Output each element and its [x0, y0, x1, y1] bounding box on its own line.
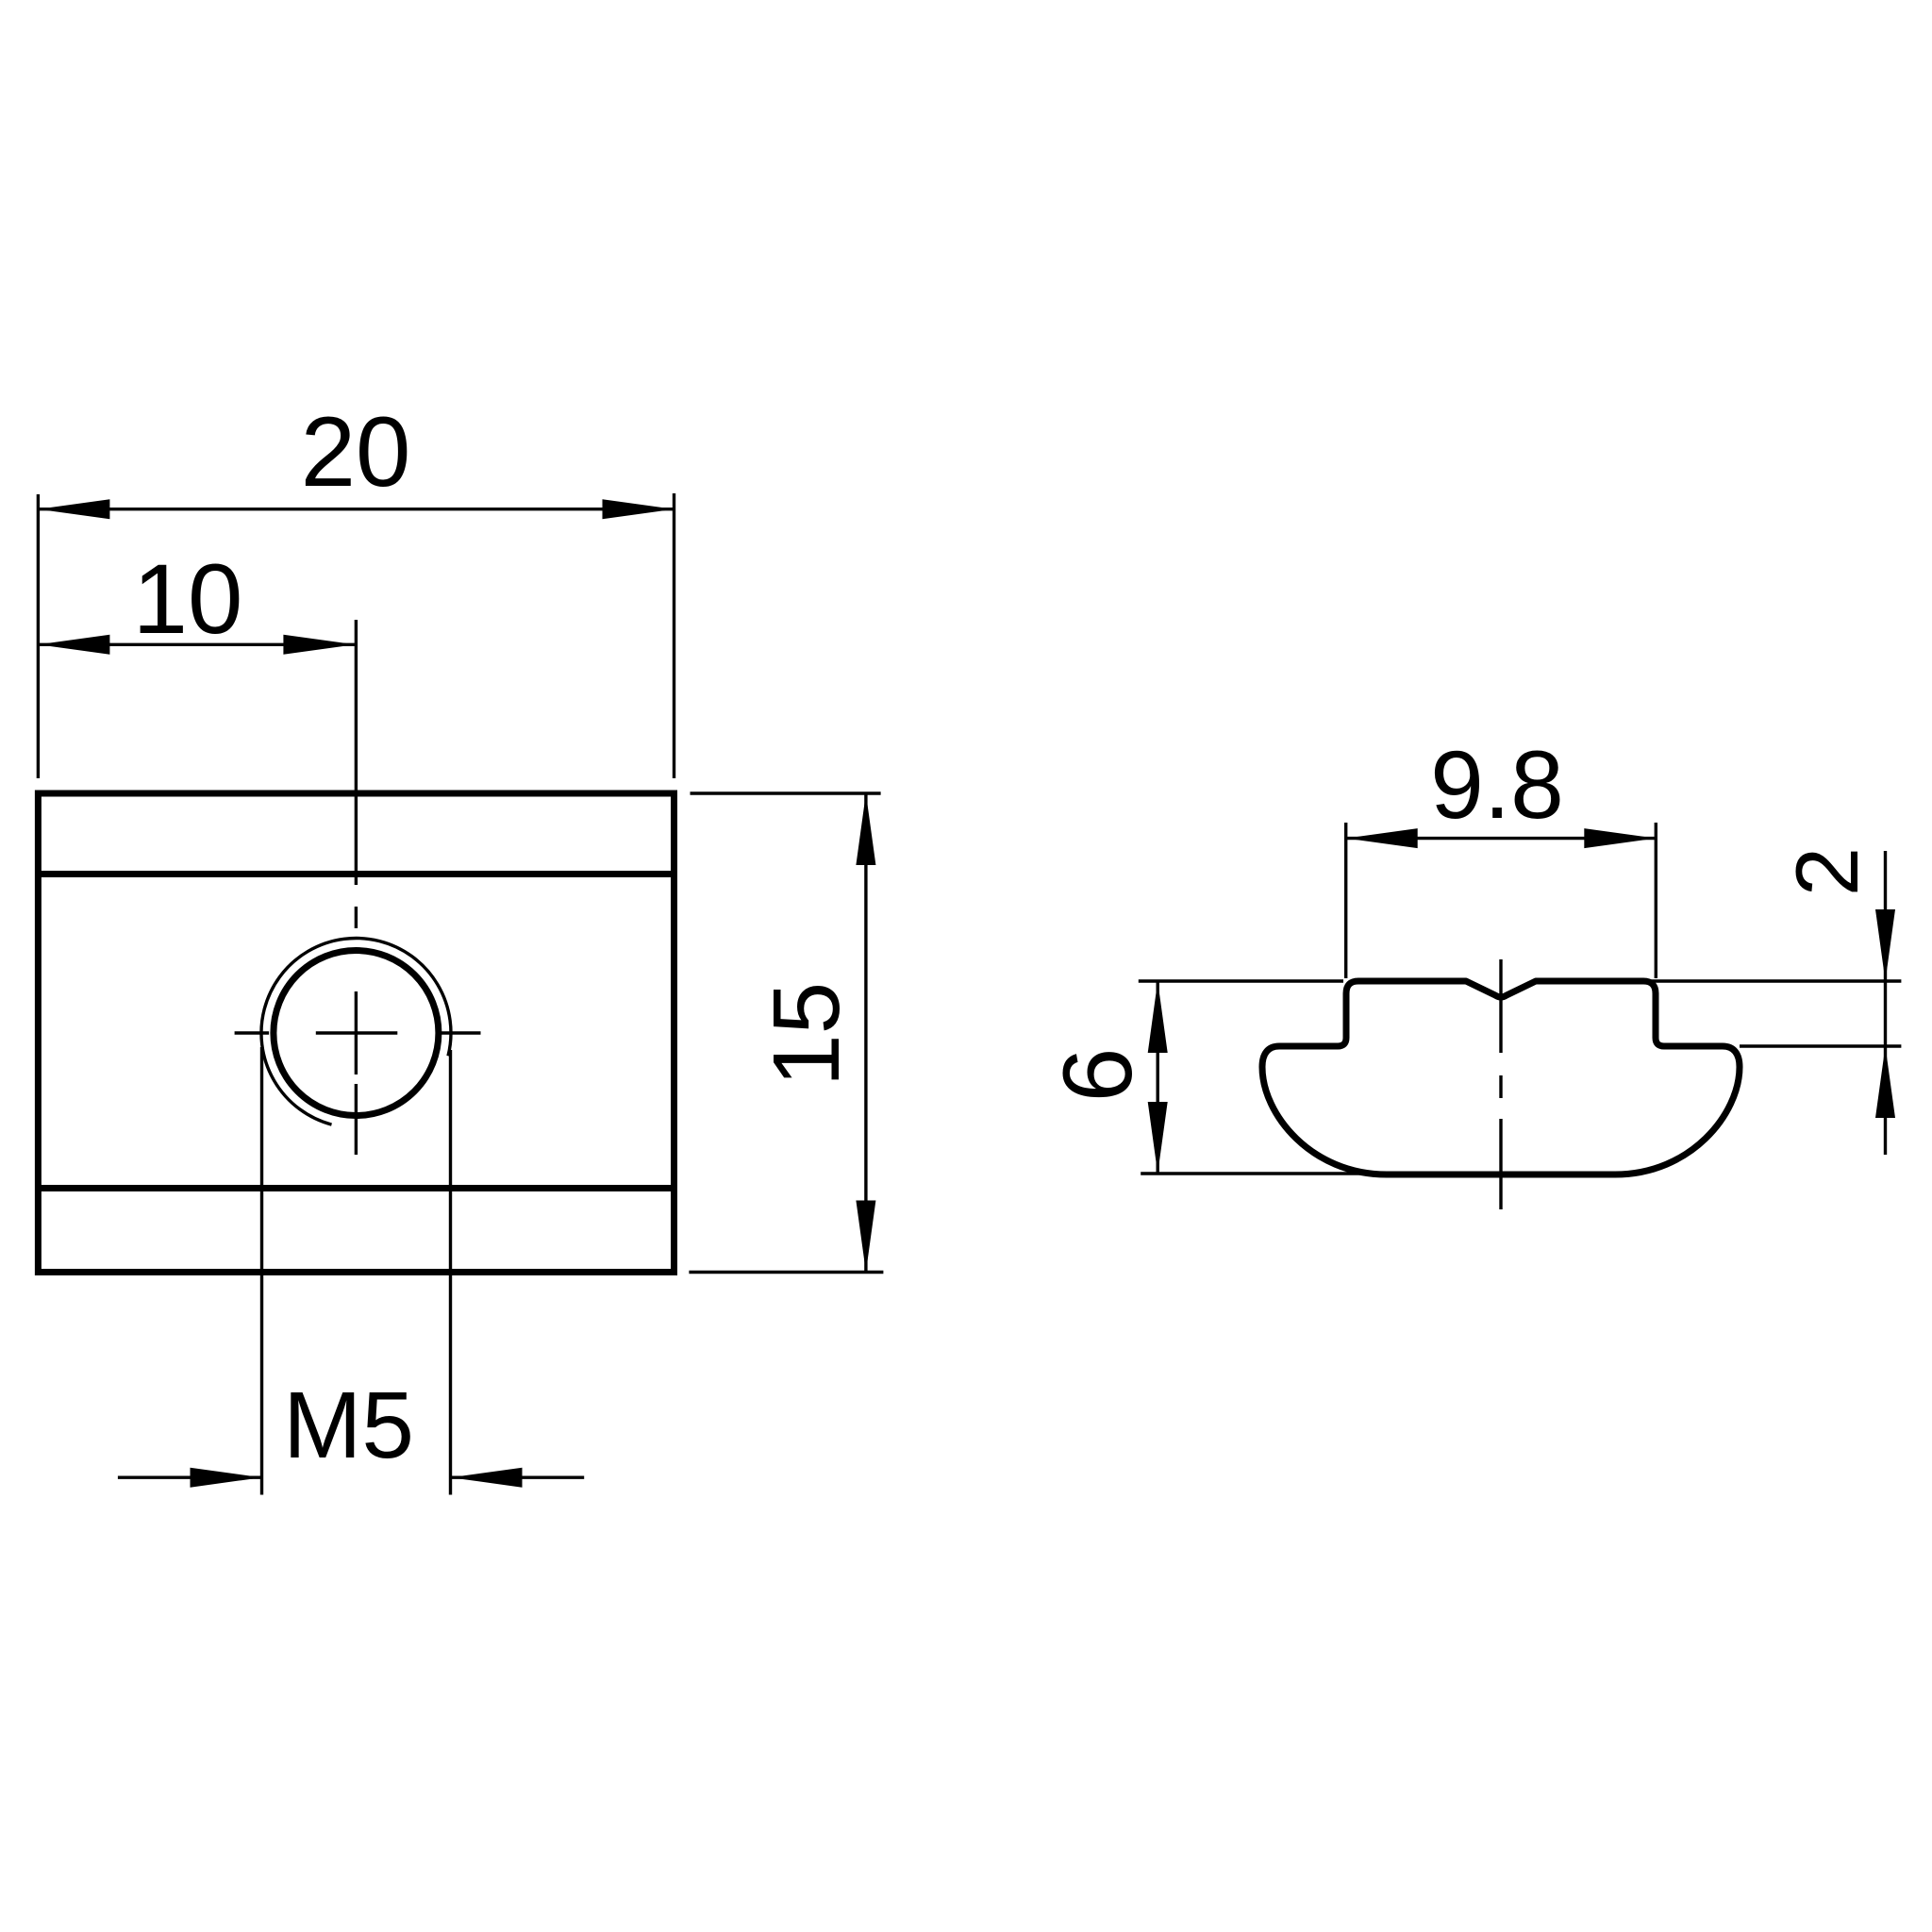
lower chamfer edge line	[38, 1185, 674, 1191]
dimension M5: left arrowhead	[191, 1468, 262, 1488]
dimension 20: left arrowhead	[38, 499, 109, 519]
dimension 6: top arrowhead	[1148, 981, 1168, 1053]
dimension 2: bottom arrowhead	[1875, 1046, 1895, 1118]
dimension 2: dimension line	[1884, 851, 1887, 1155]
dimension 20: right arrowhead	[603, 499, 675, 519]
dimension 2: top arrowhead	[1875, 909, 1895, 981]
svg-text:2: 2	[1777, 847, 1876, 896]
vertical centerline of profile	[1499, 959, 1502, 1209]
dimension 20: dimension line	[38, 508, 674, 510]
dimension M5: extension lines	[262, 1047, 451, 1495]
dimension M5: right dimension line	[451, 1475, 585, 1478]
dimension 6: extension lines	[1139, 981, 1419, 1174]
vertical centerline of hole	[355, 620, 358, 1155]
dimension 15: bottom arrowhead	[856, 1201, 875, 1273]
svg-text:20: 20	[301, 397, 411, 508]
svg-text:9.8: 9.8	[1430, 731, 1564, 839]
nut body outline, top view (20 x 15 rectangle)	[38, 793, 674, 1273]
svg-text:6: 6	[1043, 1048, 1153, 1103]
dimension 10: right arrowhead	[283, 635, 355, 655]
dimension 9.8: right arrowhead	[1584, 828, 1656, 848]
tapped hole M5 (minor diameter circle)	[274, 951, 439, 1116]
horizontal centerline of hole	[235, 1031, 481, 1034]
dimension M5: right arrowhead	[451, 1468, 523, 1488]
svg-text:M5: M5	[283, 1373, 414, 1478]
dimension 20: extension lines	[38, 493, 674, 778]
dimension 15: top arrowhead	[856, 793, 875, 865]
dimension 10: dimension line	[38, 643, 355, 646]
nut profile outline, side view (T cross-section)	[1262, 981, 1740, 1174]
dimension 9.8: dimension line	[1346, 837, 1657, 840]
dimension 15: extension lines	[689, 793, 883, 1273]
upper chamfer edge line	[38, 871, 674, 877]
dimension 15: dimension line	[864, 793, 867, 1273]
dimension 2: extension lines	[1651, 981, 1901, 1046]
dimension 10: left arrowhead	[38, 635, 109, 655]
dimension 6: bottom arrowhead	[1148, 1102, 1168, 1174]
svg-text:15: 15	[754, 982, 859, 1087]
thread major-diameter arc (3/4 thin circle)	[261, 939, 451, 1125]
dimension M5: left dimension line	[118, 1475, 262, 1478]
svg-text:10: 10	[133, 544, 243, 655]
dimension 6: dimension line	[1156, 981, 1158, 1174]
dimension 9.8: left arrowhead	[1346, 828, 1418, 848]
dimension 9.8: extension lines	[1346, 823, 1657, 978]
